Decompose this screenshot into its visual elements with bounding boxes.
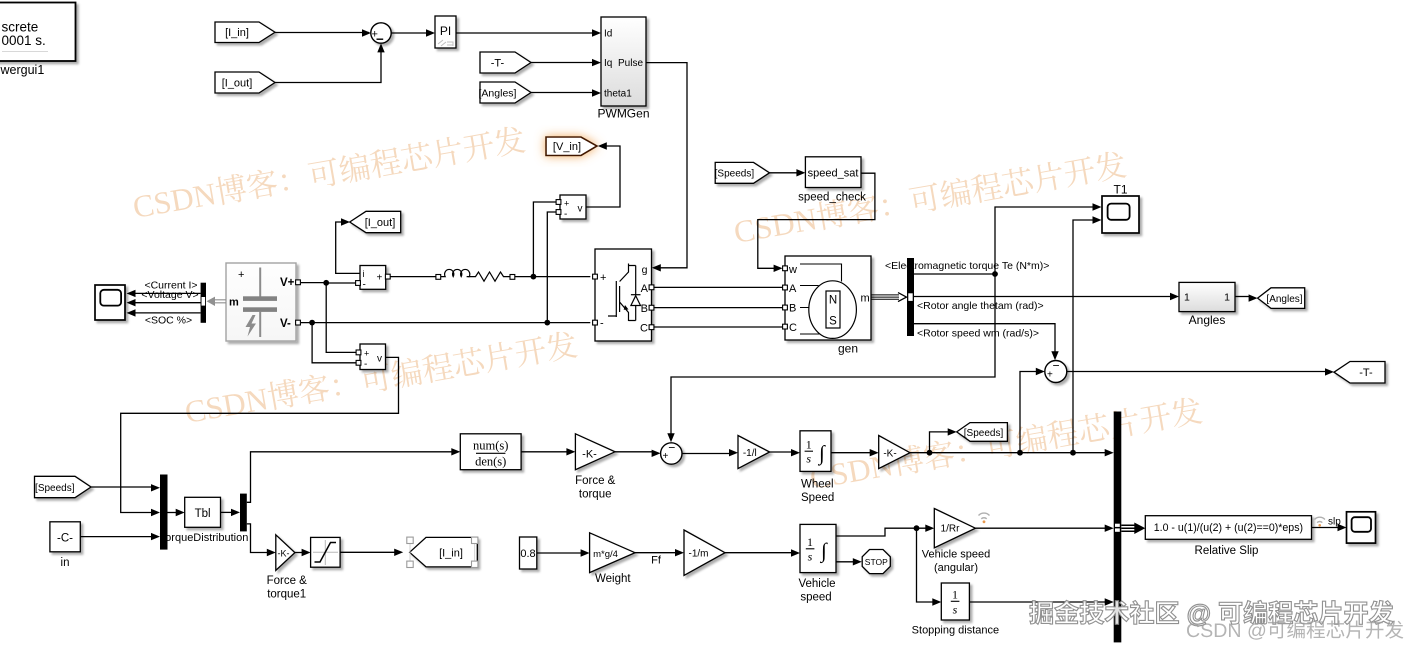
svg-text:-C-: -C- (57, 533, 73, 545)
svg-text:[V_in]: [V_in] (553, 141, 581, 153)
wire wheel speed main to bus bar (910, 452, 1107, 454)
wire wheel speed to Sum3 plus (1020, 372, 1038, 454)
wire speed_sat to gen W (758, 173, 875, 268)
wire -C- to mux (80, 536, 153, 538)
gen rotor icon (809, 281, 857, 339)
svg-text:−: − (1052, 359, 1059, 373)
wire I_in to Sum1 (275, 32, 369, 34)
wire Stopping distance to bus bar (969, 601, 1107, 603)
block Angles (subsystem 1->1) (1179, 282, 1235, 311)
bus selector bar (battery measurements) (201, 283, 206, 323)
node to T1 (1070, 450, 1076, 456)
svg-text:B: B (641, 303, 648, 315)
gen m output bus (triple line) (871, 295, 899, 299)
svg-text:T1: T1 (1113, 183, 1127, 197)
constant 0.8 (520, 537, 537, 569)
svg-text:V-: V- (280, 318, 291, 330)
svg-text:Stopping distance: Stopping distance (912, 625, 999, 637)
PI controller block (435, 16, 456, 48)
svg-text:-1/m: -1/m (689, 549, 709, 560)
machine block gen (PMSM) (785, 256, 871, 340)
svg-text:1: 1 (806, 438, 812, 452)
wire Weight to -1/m gain (Ff) (635, 552, 677, 554)
wire Speeds to speed_sat (770, 172, 799, 174)
wire i1 signal to I_out goto (336, 222, 360, 273)
wire Voltage V to scope (133, 302, 201, 304)
wire demux out1 to transfer fcn (247, 452, 453, 503)
subsystem PWMGen (601, 17, 646, 106)
svg-text:N: N (829, 295, 837, 307)
wire integrator to gain -K- (831, 452, 872, 454)
wire 0.8 to Weight gain (537, 552, 583, 554)
svg-text:0.8: 0.8 (520, 548, 535, 560)
svg-text:Ff: Ff (651, 555, 662, 567)
wire electromagnetic torque (914, 207, 1095, 274)
From tag -T- (Iq reference) (480, 52, 531, 73)
svg-text:TorqueDistribution: TorqueDistribution (160, 532, 249, 544)
svg-text:<SOC %>: <SOC %> (145, 314, 192, 326)
svg-text:w: w (788, 264, 797, 276)
svg-text:+: + (600, 272, 606, 284)
svg-text:s: s (806, 452, 811, 466)
wire Angles to goto (1235, 296, 1251, 298)
node to Sum3 (1017, 450, 1023, 456)
svg-text:speed_check: speed_check (798, 191, 866, 203)
svg-text:[Speeds]: [Speeds] (35, 483, 75, 494)
svg-text:Angles: Angles (1189, 313, 1226, 327)
svg-text:s: s (953, 603, 958, 617)
svg-text:+: + (377, 272, 383, 283)
svg-text:-: - (564, 209, 567, 220)
svg-text:-T-: -T- (491, 57, 505, 69)
svg-text:<Electromagnetic torque Te (N*: <Electromagnetic torque Te (N*m)> (885, 260, 1049, 272)
svg-text:S: S (829, 316, 837, 328)
voltage measurement v2 (battery voltage) (360, 344, 386, 370)
wire DC+ rail to v1 plus (533, 202, 556, 277)
svg-text:-1/l: -1/l (743, 448, 757, 459)
svg-text:-: - (363, 280, 366, 291)
svg-text:1: 1 (807, 535, 813, 549)
voltage measurement v1 (560, 195, 586, 219)
wire integrator out2 to STOP (836, 561, 855, 563)
Goto tag [Speeds] (957, 423, 1008, 442)
wire wheel speed to T1 input 2 (1073, 220, 1095, 453)
wire v1 output to V_in (586, 146, 620, 207)
wire Sum2 to -1/l gain (682, 453, 731, 455)
svg-text:-K-: -K- (582, 449, 597, 461)
wire converter B to gen B (654, 307, 783, 309)
svg-text:-K-: -K- (278, 548, 290, 558)
svg-text:1/Rr: 1/Rr (941, 524, 961, 535)
svg-text:+: + (238, 269, 244, 281)
selection handles (410, 540, 475, 564)
svg-text:den(s): den(s) (475, 455, 506, 469)
node V- branch 2 (544, 320, 550, 326)
svg-text:C: C (640, 323, 648, 335)
svg-text:g: g (642, 264, 648, 276)
bus to Fcn (striped) (1121, 525, 1135, 531)
svg-text:[I_in]: [I_in] (439, 547, 463, 559)
node DC+ at v1 tap (531, 274, 537, 280)
svg-text:Tbl: Tbl (195, 508, 211, 520)
wire V- rail to converter (301, 322, 590, 324)
wire i1 to RL branch (390, 276, 436, 278)
svg-text:Speed: Speed (801, 492, 834, 504)
svg-text:A: A (641, 283, 649, 295)
svg-text:gen: gen (838, 342, 858, 356)
svg-text:∫: ∫ (819, 539, 828, 564)
wire Fcn to scope (slp) (1312, 527, 1341, 529)
series RL branch (inductor + resistor) (436, 275, 441, 280)
svg-text:A: A (789, 283, 797, 295)
battery block (electrical source) (226, 263, 296, 341)
wire battery voltage v2 to mux (121, 357, 399, 512)
wire converter A to gen A (654, 286, 783, 288)
wire V+ rail (301, 282, 356, 284)
svg-text:in: in (61, 557, 70, 569)
gain -K- Force & torque1 (276, 535, 295, 571)
mux bar (torque distribution inputs) (160, 475, 168, 550)
Goto tag [V_in] (orange highlighted) (546, 137, 597, 156)
node vehicle speed branch (914, 525, 920, 531)
integrator Wheel Speed 1/s (800, 431, 831, 472)
scope slip (1347, 512, 1376, 543)
svg-text:slp: slp (1328, 516, 1341, 527)
logging badge slp (1315, 517, 1325, 522)
wire -T- to PWMGen Iq (531, 62, 594, 64)
svg-text:-: - (600, 318, 604, 330)
wire rotor speed to Sum3 minus (914, 324, 1055, 354)
gain -1/m (684, 530, 725, 575)
Goto tag [Angles] (1258, 288, 1305, 309)
watermark CSDN diagonal (decorative) (132, 124, 1203, 491)
transfer fcn num(s)/den(s) (460, 434, 521, 470)
current measurement i1 (360, 266, 386, 290)
powergui block "wergui1" (clipped at left edge) (0, 3, 76, 62)
wire torque feedback to Sum2 (671, 274, 995, 436)
wire tf to gain Force&torque (521, 451, 568, 453)
svg-text:Force &: Force & (267, 575, 308, 587)
svg-text:s: s (808, 550, 813, 564)
svg-text:Vehicle: Vehicle (798, 578, 835, 590)
bus selector bar (gen measurements) (907, 258, 914, 336)
svg-text:speed: speed (800, 592, 831, 604)
node torque branch (992, 271, 998, 277)
svg-text:[Angles]: [Angles] (1266, 294, 1302, 305)
svg-text:V+: V+ (280, 277, 295, 289)
svg-text:v: v (377, 354, 382, 365)
svg-text:[Speeds]: [Speeds] (715, 169, 755, 180)
saturation block (311, 537, 341, 567)
svg-text:Iq: Iq (604, 58, 612, 69)
lookup table Tbl (TorqueDistribution) (185, 497, 221, 527)
wire to Vehicle speed integrator (725, 552, 793, 554)
demux bar (torque split) (240, 494, 247, 532)
wire I_out to Sum1 minus input (275, 46, 381, 83)
svg-text:1: 1 (1224, 292, 1230, 304)
converter block (IGBT bridge) (595, 249, 652, 341)
gain -K- Force & torque (575, 434, 615, 470)
svg-text:torque1: torque1 (267, 589, 306, 601)
svg-text:m: m (861, 293, 870, 305)
constant -C- (in) (50, 522, 80, 552)
svg-text:Weight: Weight (595, 573, 631, 585)
svg-text:Wheel: Wheel (801, 479, 834, 491)
svg-text:[I_out]: [I_out] (365, 217, 396, 229)
svg-text:m: m (229, 297, 239, 309)
wire Sum1 to PI (391, 32, 428, 34)
node V+ branch (323, 280, 329, 286)
svg-text:0001 s.: 0001 s. (2, 33, 46, 48)
svg-text:+: + (1047, 370, 1053, 381)
svg-text:torque: torque (579, 489, 612, 501)
svg-text:Vehicle speed: Vehicle speed (922, 549, 991, 561)
svg-text:speed_sat: speed_sat (808, 167, 859, 179)
svg-text:v: v (578, 204, 583, 215)
gain -K- (wheel speed scale) (879, 436, 910, 469)
From tag [I_in] (215, 22, 275, 43)
sum junction Sum2 (661, 443, 682, 464)
svg-text:<Voltage V>: <Voltage V> (141, 289, 198, 301)
svg-text:1.0 - u(1)/(u(2) + (u(2)==0)*e: 1.0 - u(1)/(u(2) + (u(2)==0)*eps) (1154, 522, 1303, 534)
wire V+ to v2 plus (326, 283, 356, 352)
svg-text:[I_out]: [I_out] (222, 77, 253, 89)
svg-text:num(s): num(s) (473, 439, 508, 453)
STOP block (862, 550, 890, 574)
Goto tag -T- (1334, 362, 1385, 384)
wire vehicle speed down to Stopping distance (917, 528, 935, 602)
wire gain to saturation (295, 552, 304, 554)
wire Angles to PWMGen theta1 (531, 92, 594, 94)
battery measurement bus m (gray) (213, 300, 226, 303)
svg-text:[Speeds]: [Speeds] (964, 428, 1004, 439)
Goto tag [I_out] (350, 211, 401, 232)
From tag [Angles] (theta input) (479, 82, 531, 103)
gain 1/Rr (934, 509, 975, 548)
svg-text:Relative Slip: Relative Slip (1195, 545, 1259, 557)
wire saturation to I_in goto (340, 551, 396, 553)
svg-text:1: 1 (1184, 292, 1190, 304)
bus bar (slip inputs) (1114, 412, 1122, 643)
svg-text:i: i (363, 269, 365, 279)
svg-text:<Rotor speed wm (rad/s)>: <Rotor speed wm (rad/s)> (917, 328, 1039, 340)
svg-text:-K-: -K- (883, 449, 896, 460)
svg-text:[I_in]: [I_in] (225, 27, 249, 39)
gain -1/l (738, 436, 770, 469)
svg-text:-: - (364, 359, 367, 370)
wire Sum3 to -T- goto (1067, 371, 1327, 373)
wire gain to Sum2 (615, 451, 654, 453)
wire SOC to scope (133, 312, 201, 314)
svg-text:1: 1 (952, 588, 958, 602)
wire Tbl to demux (221, 511, 234, 513)
wire 1/Rr to bus bar (975, 527, 1107, 529)
svg-text:wergui1: wergui1 (0, 63, 44, 77)
svg-text:+: + (564, 199, 569, 209)
block speed_sat (speed_check) (805, 157, 861, 188)
svg-text:PWMGen: PWMGen (597, 107, 649, 121)
wire V- to v2 minus (312, 323, 356, 363)
svg-text:<Rotor angle thetam (rad)>: <Rotor angle thetam (rad)> (917, 300, 1044, 312)
resistor R (467, 272, 510, 281)
wire Current I to scope (133, 292, 201, 294)
wire PWMGen Pulse to converter gate g (646, 63, 687, 268)
wire PI to PWMGen Id (456, 32, 594, 34)
svg-text:(angular): (angular) (934, 562, 978, 574)
From tag [Speeds] (bottom) (35, 476, 92, 497)
svg-text:C: C (789, 322, 797, 334)
svg-text:−: − (668, 441, 675, 455)
Fcn block Relative Slip (1145, 516, 1311, 540)
sum junction Sum1 (+/-) (371, 23, 391, 43)
Goto tag [I_in] (selected) (410, 537, 478, 567)
integrator Stopping distance 1/s (941, 583, 969, 620)
wire RL to converter + (515, 276, 591, 278)
svg-text:Force &: Force & (575, 475, 616, 487)
svg-text:Pulse: Pulse (618, 58, 643, 69)
node V- branch 1 (309, 320, 315, 326)
scope block (battery measurements) (95, 285, 125, 320)
From tag [I_out] (top) (215, 72, 275, 93)
watermark juejin badge (1030, 600, 1404, 639)
svg-text:theta1: theta1 (604, 88, 632, 99)
svg-text:STOP: STOP (865, 557, 888, 567)
logging badge (wifi) on 1/Rr (979, 513, 990, 519)
wire integrator out to 1/Rr (836, 528, 928, 536)
wire converter C to gen C (654, 326, 783, 328)
wire demux out2 to gain Force&torque1 (247, 524, 269, 553)
wire to Wheel Speed integrator (770, 451, 794, 453)
From tag [Speeds] (middle) (715, 162, 770, 183)
wire mux to Tbl (168, 512, 179, 514)
node to Speeds goto (927, 450, 933, 456)
gain m*g/4 (Weight) (590, 533, 635, 573)
svg-text:m*g/4: m*g/4 (593, 549, 618, 560)
wire to Speeds goto (930, 432, 951, 453)
svg-text:+: + (364, 349, 369, 359)
sum junction Sum3 (slip) (1045, 361, 1067, 383)
wire DC- rail to v1 minus (547, 212, 556, 323)
integrator Vehicle speed 1/s (800, 524, 836, 572)
svg-text:-T-: -T- (1359, 367, 1373, 379)
svg-text:[Angles]: [Angles] (479, 87, 517, 99)
wire rotor angle to Angles (914, 296, 1172, 298)
svg-text:∫: ∫ (817, 441, 826, 466)
svg-text:Id: Id (604, 29, 612, 40)
inductor L (441, 269, 470, 276)
svg-text:PI: PI (440, 24, 451, 38)
svg-text:B: B (789, 303, 796, 315)
svg-text:+: + (663, 451, 669, 462)
wire Speeds to mux (91, 486, 153, 488)
IGBT + diode icon (608, 264, 636, 322)
